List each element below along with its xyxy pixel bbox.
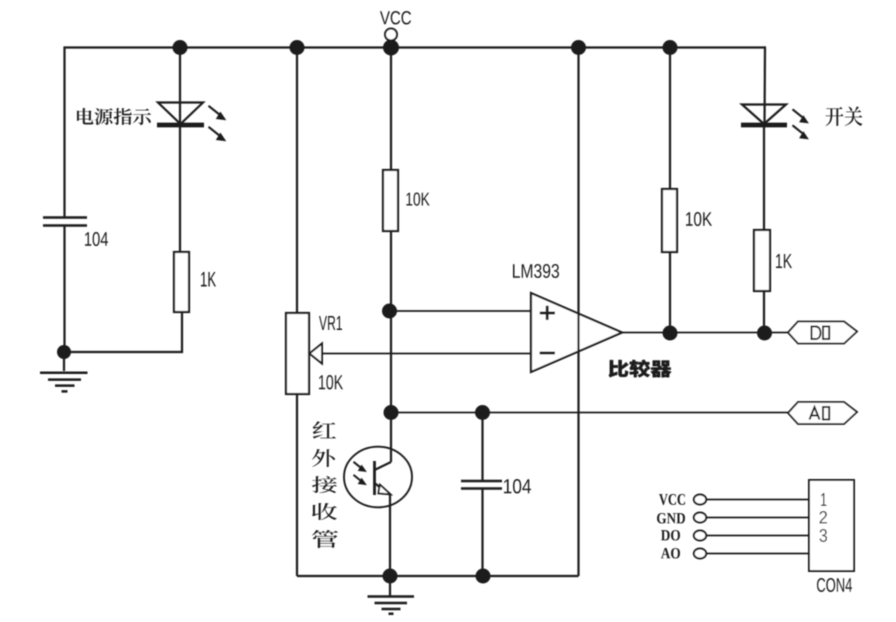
- label R4 value 1K: [776, 254, 792, 268]
- resistor R1: [174, 252, 189, 312]
- connector pin terminal DO: [694, 531, 706, 541]
- resistor R2: [383, 170, 398, 231]
- junction: rail at R2 branch (VCC dot): [383, 40, 399, 56]
- junction: bottom rail at C2: [476, 569, 491, 584]
- resistor R3: [662, 189, 677, 252]
- wire: node down to AO node: [390, 311, 392, 413]
- wire: op-amp vertical supply line: [577, 48, 579, 577]
- label VR1: [319, 316, 342, 330]
- label DO: [661, 530, 680, 541]
- wire: C2 bottom to bottom rail: [481, 489, 483, 577]
- junction: left ground node: [57, 345, 71, 359]
- junction: rail at LED D1 branch: [173, 40, 188, 55]
- connector CON4 body: [809, 480, 854, 571]
- junction: DO line at R4: [757, 326, 772, 341]
- connector pin terminal GND: [694, 513, 706, 523]
- wire: VCC top rail: [66, 46, 766, 48]
- wire: LED D1 cathode to R1: [179, 125, 181, 252]
- label R3 value 10K: [686, 212, 712, 226]
- connector pin terminal AO: [694, 549, 706, 559]
- wire: VR1 bottom down to bottom rail: [296, 394, 298, 576]
- node DO flag: [788, 322, 857, 344]
- LED D2 (switch indicator): [742, 105, 786, 125]
- label 电源指示: [77, 108, 151, 125]
- LED D1 (power indicator): [158, 103, 203, 125]
- potentiometer VR1 wiper arrow: [310, 344, 323, 364]
- wire: rail down to VR1 top: [296, 48, 298, 314]
- wire: ground node to R1 bottom: [64, 312, 182, 352]
- LED D2 emission arrows: [793, 109, 803, 117]
- label 红外接收管: [312, 421, 338, 548]
- connector CON4 pin 3 number: [820, 529, 828, 542]
- potentiometer VR1 body: [286, 313, 309, 394]
- wire: AO node down to phototransistor collector: [390, 413, 392, 463]
- wire: R2 bottom to non-inverting node: [390, 231, 392, 311]
- LED D1 emission arrows: [209, 106, 221, 115]
- wire: phototransistor emitter to bottom rail: [389, 494, 391, 576]
- label 开关: [826, 107, 863, 127]
- label C2 value 104: [504, 479, 531, 494]
- junction: rail at R3 branch: [663, 40, 678, 55]
- wire: AO line to AO flag: [391, 412, 788, 414]
- wire: rail down to R2: [390, 48, 392, 171]
- junction: rail at VR1 branch: [290, 40, 305, 55]
- label R2 value 10K: [406, 193, 429, 206]
- ground (center): [389, 576, 391, 596]
- wire: AO pin to CON4: [706, 553, 809, 555]
- connector CON4 pin 1 number: [821, 493, 827, 506]
- label C1 value 104: [85, 232, 108, 246]
- wire: rail corner down to LED D2: [765, 48, 767, 126]
- label VCC: [659, 494, 685, 505]
- junction: AO node at phototransistor collector: [384, 405, 399, 420]
- capacitor C1: [43, 216, 87, 219]
- wire: rail to LED D1 anode: [179, 48, 181, 126]
- wire: left branch from rail corner down to C1: [65, 48, 67, 218]
- wire: VCC pin to CON4: [706, 499, 809, 501]
- junction: DO line at R3: [663, 326, 678, 341]
- wire: VR1 wiper to op-amp inverting input: [322, 353, 531, 355]
- label GND: [657, 513, 685, 524]
- label VR1 value 10K: [319, 375, 343, 390]
- wire: R4 bottom to DO line: [763, 291, 765, 333]
- junction: non-inverting input node: [382, 304, 397, 319]
- connector CON4 pin 2 number: [820, 511, 828, 524]
- wire: node to op-amp non-inverting input: [390, 310, 532, 312]
- wire: GND pin to CON4: [706, 517, 809, 519]
- node AO flag: [788, 402, 857, 424]
- wire: LED D2 cathode to R4: [763, 125, 765, 230]
- connector pin terminal VCC: [694, 495, 706, 505]
- op-amp U1 LM393: [531, 293, 622, 372]
- wire: AO node down to C2: [481, 413, 483, 481]
- power terminal VCC: [385, 29, 397, 41]
- wire: DO pin to CON4: [706, 535, 809, 537]
- resistor R4: [754, 230, 770, 291]
- label LM393: [513, 264, 559, 278]
- label AO: [661, 548, 680, 559]
- phototransistor Q1 incident light arrows: [354, 462, 362, 469]
- label 比较器: [609, 360, 672, 378]
- wire: C1 bottom to ground node: [63, 226, 65, 353]
- op-amp U1 minus input marker: [540, 352, 555, 355]
- capacitor C2: [461, 480, 502, 483]
- label VCC: [380, 11, 411, 25]
- ground (left): [63, 352, 65, 371]
- op-amp U1 plus input marker: [540, 306, 555, 320]
- wire: op-amp output to DO flag: [622, 332, 788, 334]
- label R1 value 1K: [201, 272, 216, 287]
- junction: bottom rail at phototransistor: [383, 569, 398, 584]
- phototransistor Q1: [344, 447, 412, 508]
- label AO: [810, 407, 820, 420]
- label DO: [811, 327, 821, 340]
- junction: AO node at C2: [475, 405, 490, 420]
- junction: rail at supply line: [571, 40, 586, 55]
- label CON4: [817, 578, 852, 592]
- wire: rail down to R3: [669, 48, 671, 190]
- wire: bottom rail: [297, 575, 579, 577]
- wire: R3 bottom to DO line: [669, 252, 671, 333]
